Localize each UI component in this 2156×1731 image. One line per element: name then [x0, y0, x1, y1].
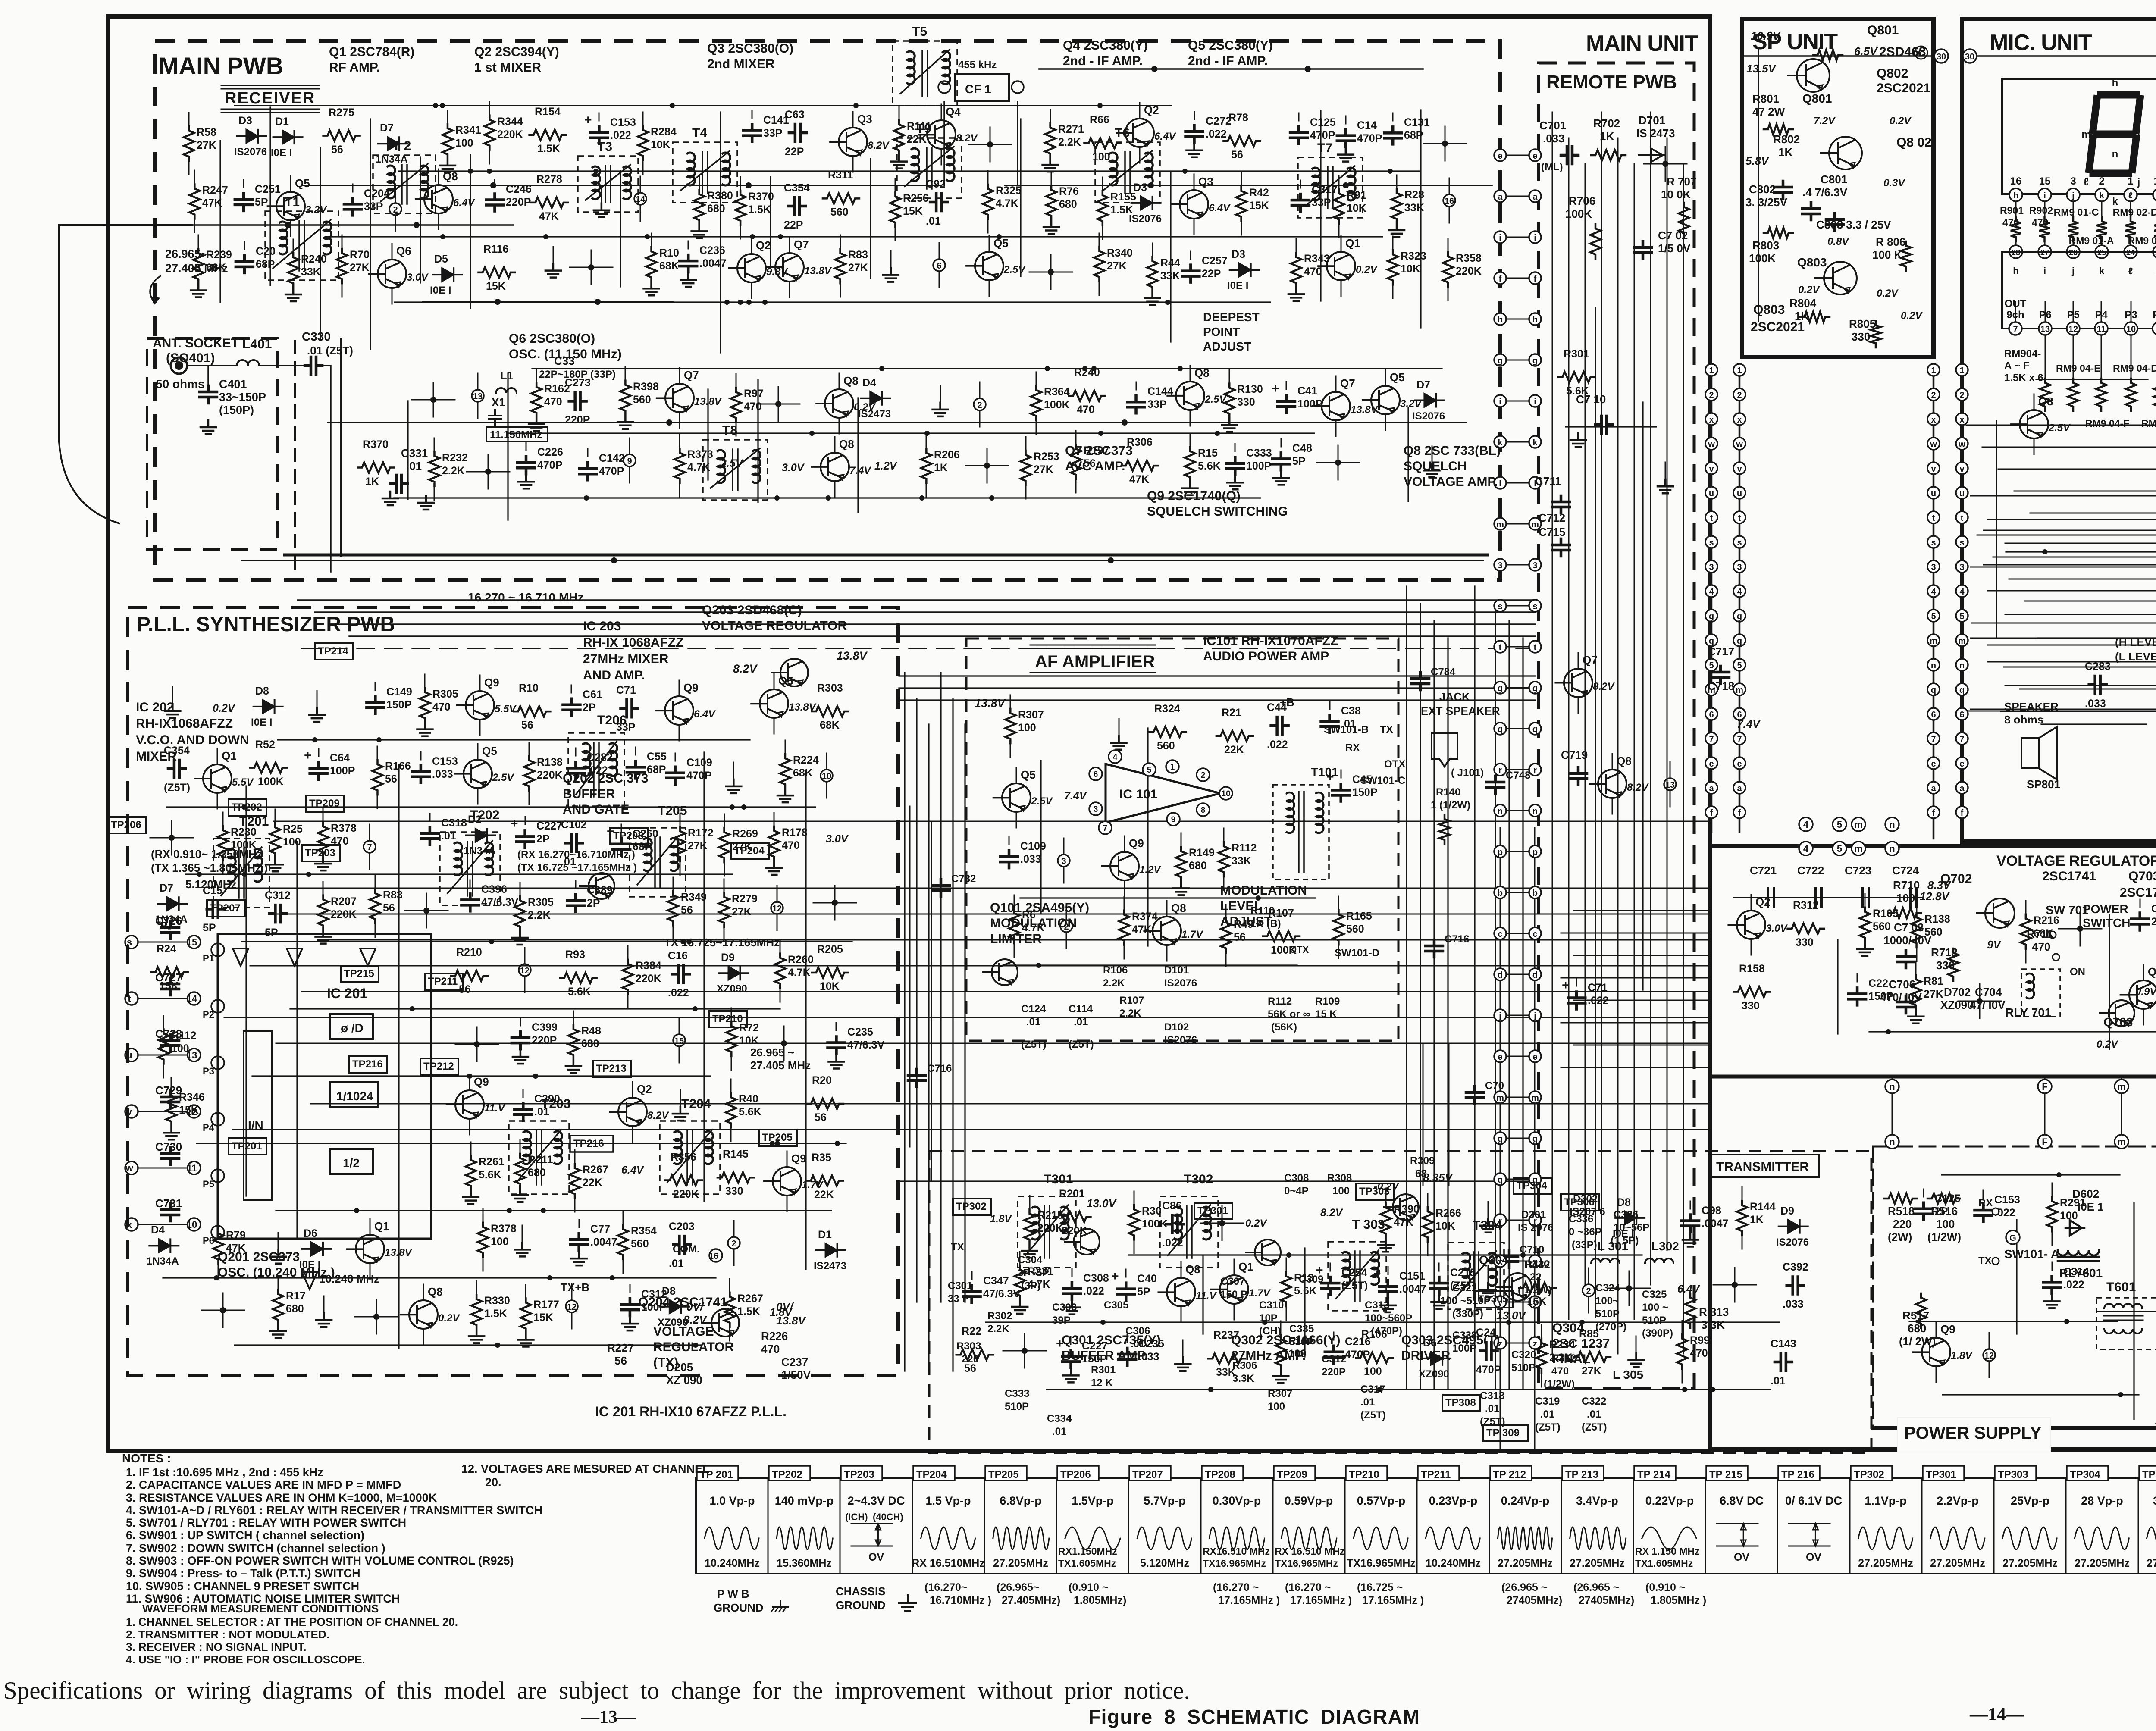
svg-text:26.965 ~: 26.965 ~ — [750, 1046, 794, 1059]
svg-text:C704: C704 — [1975, 986, 2002, 999]
svg-text:33P: 33P — [616, 721, 635, 733]
svg-text:+: + — [1326, 770, 1334, 784]
svg-text:1.805MHz ): 1.805MHz ) — [1651, 1594, 1706, 1606]
svg-text:Q801: Q801 — [1802, 92, 1832, 105]
svg-text:TX16.965MHz: TX16.965MHz — [1347, 1557, 1416, 1569]
svg-text:Q9: Q9 — [474, 1075, 489, 1088]
svg-text:D701: D701 — [1639, 114, 1665, 127]
svg-text:13.8V: 13.8V — [804, 265, 832, 277]
svg-text:R112: R112 — [1232, 842, 1257, 854]
svg-text:a: a — [1737, 784, 1742, 793]
svg-text:25: 25 — [2097, 248, 2106, 257]
svg-text:ANT. SOCKET: ANT. SOCKET — [153, 336, 239, 351]
svg-text:16.710MHz ): 16.710MHz ) — [930, 1594, 991, 1606]
svg-text:470: 470 — [744, 401, 762, 413]
svg-text:6: 6 — [1931, 710, 1936, 720]
svg-text:R227: R227 — [607, 1341, 634, 1354]
svg-text:100K: 100K — [231, 839, 257, 851]
svg-text:R99: R99 — [1690, 1334, 1710, 1346]
svg-text:1K: 1K — [1750, 1214, 1764, 1226]
svg-text:ℓ: ℓ — [2128, 191, 2133, 200]
svg-text:T 2: T 2 — [392, 139, 411, 153]
svg-text:R105: R105 — [1873, 908, 1899, 920]
svg-text:.033: .033 — [2085, 698, 2106, 710]
svg-text:A ~ F: A ~ F — [2004, 360, 2029, 372]
svg-text:T4: T4 — [692, 126, 707, 140]
svg-text:1.2V: 1.2V — [1139, 864, 1161, 876]
svg-text:R305: R305 — [432, 688, 458, 700]
svg-text:1/1024: 1/1024 — [336, 1089, 373, 1103]
svg-text:2.5V: 2.5V — [720, 457, 744, 470]
svg-text:C748: C748 — [1506, 770, 1530, 781]
svg-text:TP 216: TP 216 — [1781, 1469, 1814, 1481]
svg-text:D4: D4 — [151, 1224, 165, 1236]
svg-text:12: 12 — [520, 966, 530, 976]
svg-text:1.5 Vp-p: 1.5 Vp-p — [925, 1494, 971, 1507]
svg-text:m: m — [2117, 1081, 2126, 1092]
svg-text:Q8: Q8 — [1171, 901, 1186, 914]
svg-text:IS2076: IS2076 — [234, 146, 267, 158]
svg-text:100: 100 — [455, 137, 473, 149]
svg-text:330: 330 — [725, 1185, 743, 1197]
svg-text:T7: T7 — [1317, 141, 1332, 155]
svg-text:(16.270 ~: (16.270 ~ — [1285, 1581, 1331, 1593]
svg-text:R713: R713 — [1931, 946, 1958, 959]
svg-text:C730: C730 — [155, 1140, 182, 1153]
svg-text:(56K): (56K) — [1271, 1021, 1297, 1033]
svg-text:s: s — [1532, 602, 1537, 611]
svg-text:10. SW905 : CHANNEL 9 PR: 10. SW905 : CHANNEL 9 PRESET SWITCH — [126, 1580, 359, 1593]
svg-text:C306: C306 — [1125, 1325, 1150, 1337]
svg-text:510P: 510P — [1511, 1362, 1536, 1374]
svg-text:15K: 15K — [486, 280, 506, 292]
svg-text:.022: .022 — [1267, 739, 1288, 751]
svg-text:k: k — [2099, 266, 2105, 276]
svg-text:j: j — [1498, 1011, 1501, 1021]
svg-text:12: 12 — [1984, 1351, 1994, 1361]
svg-text:Q803: Q803 — [1797, 256, 1827, 269]
svg-text:100P: 100P — [1297, 398, 1322, 410]
svg-text:C153: C153 — [610, 116, 636, 128]
svg-text:12. VOLTAGES ARE MESURED A: 12. VOLTAGES ARE MESURED AT CHANNEL — [461, 1462, 710, 1475]
svg-text:2: 2 — [731, 1239, 736, 1249]
svg-text:AUDIO POWER AMP: AUDIO POWER AMP — [1203, 649, 1329, 664]
svg-text:NOTES :: NOTES : — [122, 1452, 171, 1465]
svg-text:68K: 68K — [206, 262, 226, 274]
svg-text:D6: D6 — [1423, 1337, 1437, 1349]
svg-text:47/ I0V: 47/ I0V — [1970, 999, 2006, 1011]
svg-text:IS 2473: IS 2473 — [1636, 127, 1675, 140]
svg-text:R197: R197 — [1084, 444, 1109, 457]
svg-text:470: 470 — [1551, 1365, 1569, 1377]
svg-text:T205: T205 — [658, 804, 687, 818]
svg-text:g: g — [1737, 612, 1742, 621]
svg-text:DEEPEST: DEEPEST — [1203, 310, 1260, 324]
svg-text:(16.270~: (16.270~ — [924, 1581, 967, 1593]
svg-text:TP216: TP216 — [352, 1058, 383, 1070]
svg-text:TP203: TP203 — [305, 847, 335, 859]
svg-text:C301: C301 — [948, 1280, 972, 1292]
svg-text:150P: 150P — [1082, 1353, 1107, 1365]
svg-text:R356: R356 — [671, 1151, 696, 1163]
svg-text:.0047: .0047 — [699, 257, 727, 269]
svg-text:100: 100 — [1332, 1185, 1350, 1197]
svg-text:150 P: 150 P — [1220, 1289, 1247, 1300]
svg-text:6.8Vp-p: 6.8Vp-p — [1000, 1494, 1042, 1507]
svg-text:0/ 6.1V DC: 0/ 6.1V DC — [1785, 1494, 1842, 1507]
svg-text:R805: R805 — [1849, 317, 1876, 330]
svg-text:C724: C724 — [1892, 864, 1919, 877]
svg-text:m: m — [1496, 1093, 1504, 1103]
svg-text:R149: R149 — [1189, 847, 1215, 859]
svg-text:MODULATION: MODULATION — [1220, 883, 1307, 898]
svg-text:R78: R78 — [1228, 112, 1248, 124]
svg-text:(Z5T): (Z5T) — [1480, 1416, 1505, 1427]
svg-text:56: 56 — [331, 144, 343, 156]
svg-text:100 ~: 100 ~ — [1642, 1302, 1668, 1313]
svg-text:.022: .022 — [668, 987, 689, 999]
svg-text:C401: C401 — [219, 378, 247, 391]
svg-text:R 313: R 313 — [1699, 1305, 1729, 1318]
svg-text:j: j — [2137, 176, 2140, 188]
svg-text:5.120MHz: 5.120MHz — [1140, 1557, 1189, 1569]
svg-text:R278: R278 — [536, 173, 562, 185]
svg-text:r: r — [1498, 1216, 1502, 1226]
svg-text:C330: C330 — [302, 330, 331, 343]
svg-text:x: x — [1737, 415, 1742, 425]
svg-text:8 ohms: 8 ohms — [2004, 713, 2043, 726]
svg-text:0.2V: 0.2V — [1901, 310, 1923, 322]
svg-text:F: F — [2042, 1081, 2047, 1092]
svg-text:220P: 220P — [506, 196, 531, 208]
svg-text:TP304: TP304 — [2070, 1469, 2100, 1481]
svg-text:.01: .01 — [669, 1258, 684, 1270]
svg-text:470P: 470P — [1345, 1349, 1370, 1361]
svg-text:C331: C331 — [401, 447, 428, 460]
svg-text:Q2: Q2 — [1755, 895, 1771, 908]
svg-text:C721: C721 — [1750, 864, 1777, 877]
svg-text:Q5: Q5 — [778, 674, 793, 687]
svg-text:7.4V: 7.4V — [1064, 790, 1087, 802]
svg-text:1K: 1K — [934, 462, 948, 474]
svg-text:56K or ∞: 56K or ∞ — [1268, 1008, 1310, 1020]
svg-text:SP801: SP801 — [2027, 778, 2060, 791]
svg-text:2SC2021: 2SC2021 — [1751, 320, 1805, 334]
svg-text:n: n — [1889, 1136, 1895, 1147]
svg-text:+: + — [511, 817, 518, 831]
svg-text:22P: 22P — [785, 146, 804, 158]
svg-text:6.4V: 6.4V — [621, 1164, 645, 1176]
svg-text:15K: 15K — [1249, 200, 1269, 212]
svg-text:0.57Vp-p: 0.57Vp-p — [1357, 1494, 1406, 1507]
svg-text:R24: R24 — [157, 943, 176, 955]
svg-text:R206: R206 — [934, 449, 960, 461]
svg-text:SPEAKER: SPEAKER — [2004, 700, 2059, 713]
svg-text:R802: R802 — [1773, 133, 1800, 146]
svg-text:27K: 27K — [1034, 463, 1053, 476]
svg-text:RM9 01-A: RM9 01-A — [2069, 235, 2114, 246]
svg-text:R305: R305 — [528, 896, 554, 908]
svg-text:C324: C324 — [1595, 1282, 1620, 1294]
svg-text:Q1: Q1 — [222, 749, 237, 762]
svg-text:8.2V: 8.2V — [1593, 681, 1615, 692]
svg-text:5.6K: 5.6K — [739, 1106, 761, 1118]
svg-text:R261: R261 — [479, 1156, 505, 1168]
svg-text:1.8V: 1.8V — [770, 1306, 793, 1318]
svg-text:R702: R702 — [1593, 117, 1620, 130]
svg-text:4.7K: 4.7K — [788, 967, 811, 979]
svg-text:r: r — [1498, 766, 1502, 775]
svg-text:R517: R517 — [1902, 1309, 1929, 1322]
svg-text:2.2K: 2.2K — [987, 1323, 1009, 1335]
svg-text:R247: R247 — [202, 184, 228, 196]
svg-text:1N34A: 1N34A — [147, 1255, 179, 1267]
svg-text:1 (1/2W): 1 (1/2W) — [1431, 799, 1470, 811]
svg-text:IS2076: IS2076 — [1412, 410, 1445, 422]
svg-text:1.5K x 6: 1.5K x 6 — [2004, 372, 2043, 384]
svg-text:RM904-: RM904- — [2004, 348, 2041, 360]
svg-text:2P: 2P — [583, 701, 596, 714]
svg-text:.033: .033 — [1020, 853, 1041, 865]
svg-text:q: q — [1959, 686, 1965, 695]
svg-text:(Z5T): (Z5T) — [1535, 1421, 1561, 1433]
svg-text:2.5V: 2.5V — [1204, 394, 1227, 405]
svg-text:(1/2W): (1/2W) — [1544, 1378, 1575, 1390]
svg-text:5P: 5P — [255, 196, 268, 208]
svg-text:D9: D9 — [1780, 1205, 1794, 1217]
svg-text:220K: 220K — [636, 973, 661, 985]
svg-text:m: m — [1531, 1093, 1539, 1103]
svg-text:R224: R224 — [793, 754, 819, 766]
svg-text:33P: 33P — [763, 127, 782, 139]
svg-text:h: h — [2013, 191, 2018, 200]
svg-text:R303: R303 — [817, 682, 843, 694]
svg-text:BUFFER: BUFFER — [563, 787, 615, 801]
svg-text:100P: 100P — [1452, 1343, 1476, 1354]
svg-text:(Z5T): (Z5T) — [164, 782, 190, 794]
svg-text:3.0V: 3.0V — [1766, 923, 1788, 934]
svg-text:i: i — [2137, 129, 2140, 141]
svg-text:(16.725 ~: (16.725 ~ — [1357, 1581, 1403, 1593]
svg-text:g: g — [1532, 684, 1538, 693]
svg-text:10K: 10K — [651, 139, 671, 151]
svg-text:c: c — [1532, 930, 1537, 939]
svg-text:560: 560 — [631, 1238, 649, 1250]
svg-text:510P: 510P — [1005, 1401, 1029, 1412]
svg-text:C61: C61 — [583, 689, 602, 701]
svg-text:330: 330 — [1852, 330, 1870, 343]
svg-text:R154: R154 — [535, 106, 561, 118]
svg-text:27K: 27K — [1924, 988, 1943, 1000]
svg-text:Q6: Q6 — [396, 244, 411, 257]
svg-text:C246: C246 — [506, 183, 532, 195]
svg-text:i: i — [2043, 266, 2046, 276]
svg-text:m: m — [1854, 843, 1863, 854]
svg-text:g: g — [1498, 1134, 1503, 1144]
svg-text:OUT: OUT — [2005, 298, 2027, 310]
svg-text:(Z5T): (Z5T) — [1582, 1421, 1607, 1433]
svg-text:0.2V: 0.2V — [438, 1312, 460, 1324]
svg-text:R97: R97 — [744, 388, 764, 400]
svg-text:C215: C215 — [1450, 1267, 1476, 1279]
svg-text:R165: R165 — [1346, 910, 1372, 922]
svg-text:9: 9 — [627, 457, 632, 466]
svg-text:D6: D6 — [304, 1227, 317, 1240]
svg-text:n: n — [1931, 661, 1936, 670]
svg-text:2: 2 — [2099, 175, 2104, 187]
svg-text:R279: R279 — [732, 893, 758, 905]
svg-text:C44: C44 — [1267, 701, 1287, 714]
svg-text:0.23Vp-p: 0.23Vp-p — [1429, 1494, 1478, 1507]
svg-text:w: w — [1708, 440, 1715, 449]
svg-text:R239: R239 — [206, 249, 232, 261]
svg-text:Q2: Q2 — [637, 1083, 652, 1096]
svg-text:TP210: TP210 — [1349, 1469, 1379, 1481]
svg-text:q: q — [1498, 1175, 1503, 1185]
svg-text:15K: 15K — [903, 205, 923, 217]
svg-text:TX16.965MHz: TX16.965MHz — [1203, 1558, 1266, 1569]
svg-text:C254: C254 — [1341, 1267, 1367, 1279]
svg-text:R266: R266 — [1435, 1207, 1461, 1219]
svg-text:b: b — [1532, 889, 1538, 898]
svg-text:RM9 04-D: RM9 04-D — [2113, 363, 2156, 374]
svg-text:Q802: Q802 — [1877, 66, 1908, 81]
svg-text:h: h — [1532, 315, 1538, 325]
svg-text:e: e — [1709, 759, 1714, 769]
svg-text:+: + — [1562, 978, 1570, 992]
svg-text:C235: C235 — [847, 1026, 873, 1038]
svg-text:30: 30 — [1937, 52, 1946, 62]
svg-text:RM9 02-D: RM9 02-D — [2113, 207, 2156, 218]
svg-text:2: 2 — [1709, 391, 1714, 400]
svg-text:C314: C314 — [2063, 1266, 2089, 1278]
svg-text:R81: R81 — [1924, 975, 1943, 987]
svg-text:P4: P4 — [2095, 309, 2108, 321]
svg-text:R801: R801 — [1752, 92, 1779, 105]
svg-text:d: d — [1532, 970, 1538, 980]
svg-text:C33: C33 — [554, 354, 575, 367]
svg-text:TP203: TP203 — [844, 1469, 874, 1481]
svg-text:TX: TX — [1978, 1255, 1992, 1267]
svg-text:1. CHANNEL SELECTOR : A: 1. CHANNEL SELECTOR : AT THE POSITION OF… — [126, 1615, 458, 1628]
svg-text:—14—: —14— — [1969, 1705, 2024, 1725]
svg-text:5P: 5P — [265, 927, 278, 939]
svg-text:R 707: R 707 — [1667, 175, 1696, 188]
svg-text:C260: C260 — [633, 828, 658, 840]
svg-text:f: f — [1738, 808, 1741, 818]
svg-text:0.2V: 0.2V — [2096, 1039, 2118, 1050]
svg-text:24: 24 — [2126, 248, 2135, 257]
svg-text:R109: R109 — [1315, 995, 1340, 1007]
svg-text:C308: C308 — [1083, 1272, 1109, 1284]
svg-text:Q8: Q8 — [839, 438, 854, 451]
svg-text:j: j — [1533, 1011, 1536, 1021]
svg-text:C712: C712 — [1539, 511, 1565, 524]
svg-text:68P: 68P — [256, 258, 275, 270]
svg-text:470P: 470P — [1310, 129, 1335, 141]
svg-text:C716: C716 — [927, 1063, 952, 1074]
svg-text:VOLTAGE REGULATOR: VOLTAGE REGULATOR — [1996, 853, 2156, 869]
svg-text:XZ090: XZ090 — [1419, 1368, 1449, 1380]
svg-text:TX+B: TX+B — [561, 1281, 589, 1294]
svg-text:.0047: .0047 — [1702, 1218, 1729, 1230]
svg-text:a: a — [1931, 784, 1936, 793]
svg-text:56: 56 — [964, 1362, 976, 1374]
svg-text:R15: R15 — [1198, 447, 1218, 459]
svg-text:5P: 5P — [1292, 455, 1306, 467]
svg-text:100 K: 100 K — [1872, 248, 1902, 261]
svg-text:R83: R83 — [383, 889, 403, 901]
svg-text:TP 212: TP 212 — [1493, 1469, 1526, 1481]
svg-text:C717: C717 — [1708, 645, 1734, 658]
svg-text:R349: R349 — [681, 891, 707, 903]
svg-text:8.2V: 8.2V — [647, 1110, 669, 1121]
svg-text:7.4V: 7.4V — [849, 465, 871, 476]
svg-text:z: z — [1533, 1339, 1537, 1349]
svg-text:R112: R112 — [1268, 995, 1292, 1007]
svg-text:100: 100 — [283, 836, 301, 848]
svg-text:T5: T5 — [912, 25, 927, 39]
svg-text:47/6.3V: 47/6.3V — [481, 896, 519, 908]
svg-text:10.9V: 10.9V — [1751, 29, 1781, 42]
svg-text:R172: R172 — [688, 827, 714, 839]
svg-text:MIC. UNIT: MIC. UNIT — [1990, 30, 2092, 55]
svg-text:C347: C347 — [983, 1275, 1009, 1287]
svg-text:R72: R72 — [739, 1022, 759, 1034]
svg-text:(150P): (150P) — [219, 404, 254, 416]
svg-text:m: m — [1930, 636, 1937, 646]
svg-text:TP 213: TP 213 — [1565, 1469, 1598, 1481]
svg-text:EXT SPEAKER: EXT SPEAKER — [1421, 704, 1500, 717]
svg-text:.022: .022 — [1588, 995, 1609, 1007]
svg-text:s: s — [1931, 538, 1936, 548]
svg-text:TP215: TP215 — [344, 968, 374, 980]
svg-text:3. RECEIVER : NO SIGNAL: 3. RECEIVER : NO SIGNAL INPUT. — [126, 1640, 306, 1653]
svg-text:D3: D3 — [1133, 182, 1147, 194]
svg-text:T302: T302 — [1184, 1172, 1213, 1186]
svg-text:RM9 01-C: RM9 01-C — [2054, 207, 2099, 218]
svg-text:+: + — [1373, 1267, 1381, 1281]
svg-text:POWER SUPPLY: POWER SUPPLY — [1904, 1424, 2042, 1443]
svg-text:8. SW903 : OFF-ON POWER: 8. SW903 : OFF-ON POWER SWITCH WITH VOLU… — [126, 1554, 514, 1567]
svg-text:2SC2021: 2SC2021 — [1877, 81, 1930, 95]
svg-text:5: 5 — [1147, 766, 1152, 775]
svg-text:.01: .01 — [1771, 1375, 1786, 1387]
svg-text:TP 215: TP 215 — [1709, 1469, 1742, 1481]
svg-text:3.0V: 3.0V — [782, 462, 805, 474]
svg-text:6.4V: 6.4V — [453, 197, 475, 209]
svg-text:100~560P: 100~560P — [1365, 1312, 1412, 1324]
svg-text:MAIN UNIT: MAIN UNIT — [1586, 31, 1698, 56]
svg-text:OV: OV — [1806, 1551, 1821, 1563]
svg-text:C70: C70 — [1485, 1080, 1504, 1092]
svg-text:470: 470 — [761, 1343, 780, 1355]
svg-text:G: G — [2009, 1233, 2016, 1243]
svg-text:ℓ: ℓ — [2084, 176, 2089, 188]
svg-text:C313: C313 — [1365, 1299, 1389, 1311]
svg-text:15: 15 — [2039, 175, 2051, 187]
svg-text:n: n — [1532, 807, 1538, 816]
svg-text:P.L.L. SYNTHESIZER PWB: P.L.L. SYNTHESIZER PWB — [137, 613, 395, 636]
svg-text:R158: R158 — [1739, 963, 1765, 975]
svg-text:t: t — [1499, 643, 1502, 652]
svg-text:c: c — [1498, 930, 1502, 939]
svg-text:3: 3 — [1094, 805, 1098, 814]
svg-text:68: 68 — [1415, 1168, 1427, 1180]
svg-text:C317: C317 — [1312, 184, 1338, 196]
svg-text:12: 12 — [567, 1302, 577, 1312]
svg-text:t: t — [1710, 513, 1713, 523]
